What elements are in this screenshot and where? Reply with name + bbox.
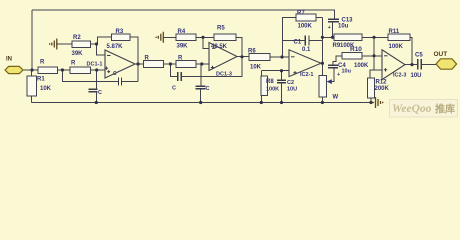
svg-text:R8: R8: [266, 79, 274, 85]
wire R4 to R5 node: [196, 36, 214, 38]
svg-text:10u: 10u: [342, 69, 351, 75]
svg-text:R2: R2: [73, 35, 81, 41]
resistor R12: [368, 78, 375, 98]
wire C1 row: [282, 39, 322, 41]
wire loop3 left vertical: [282, 18, 296, 58]
op-amp4 plus pin mark: [384, 68, 387, 71]
op-amp1 minus pin mark: [107, 55, 111, 57]
svg-text:DC1-1: DC1-1: [87, 62, 103, 68]
wire output stage4 to C5: [405, 64, 417, 66]
wire R4 to ground: [164, 36, 176, 38]
resistor R2: [72, 41, 91, 48]
node rail pot: [321, 101, 324, 104]
svg-text:R7: R7: [297, 11, 305, 17]
resistor R8: [261, 76, 267, 96]
wire stage2 to op-amp plus: [196, 63, 209, 65]
wire loop3 right vertical: [321, 18, 323, 76]
capacitor C2 (plates): [277, 80, 286, 83]
svg-text:推库: 推库: [435, 103, 455, 116]
svg-text:WeeQoo: WeeQoo: [392, 103, 432, 115]
capacitor C13 (plates): [328, 19, 339, 22]
node stage3 plus: [280, 69, 283, 72]
capacitor C5 (plates): [418, 59, 422, 69]
svg-text:+: +: [328, 25, 331, 31]
wire minus input stage1: [97, 44, 106, 55]
wire R1 stems: [31, 70, 33, 103]
wire pot bottom stem: [321, 97, 323, 103]
wire plus input stage3: [261, 70, 289, 72]
node minus4 top: [372, 36, 375, 39]
wire to op-amp plus input stage1: [91, 69, 106, 71]
svg-text:R11: R11: [389, 29, 400, 35]
node minus4: [372, 54, 375, 57]
wire R3 left: [97, 37, 111, 44]
connector OUT: [436, 59, 457, 69]
svg-text:R5: R5: [217, 26, 225, 32]
op-amp2 minus pin mark: [212, 47, 216, 49]
resistor R9: [334, 34, 362, 41]
resistor R stage2 b: [176, 61, 196, 68]
node stage2 mid: [169, 62, 172, 65]
svg-text:48.5K: 48.5K: [211, 44, 228, 50]
resistor R4: [176, 34, 196, 41]
wire C5 to OUT: [422, 64, 436, 66]
node stage1 output: [136, 62, 139, 65]
wire R2 to node: [91, 43, 97, 45]
wire minus input stage2: [203, 37, 209, 48]
svg-text:C2: C2: [287, 80, 294, 86]
svg-text:R: R: [40, 60, 45, 66]
wire R2 to ground: [58, 43, 73, 45]
wire R10 right: [362, 55, 374, 57]
node rail R8: [260, 101, 263, 104]
svg-text:R4: R4: [178, 29, 186, 35]
wire R6 to minus node stage3: [270, 56, 289, 58]
resistor R1: [27, 76, 36, 96]
wire ground-cap stage2: [200, 64, 202, 103]
node rail cap1: [95, 101, 98, 104]
resistor R10: [342, 53, 362, 60]
node stage1 plus: [95, 68, 98, 71]
wire plus input stage4 to R12: [370, 70, 382, 78]
capacitor C stage2 ground (plates): [196, 86, 206, 89]
svg-text:R: R: [145, 56, 150, 62]
resistor R stage2 a: [144, 61, 164, 68]
svg-text:100K: 100K: [354, 63, 369, 69]
watermark box: [390, 100, 458, 118]
svg-text:10K: 10K: [40, 86, 52, 92]
op-amp IC2-3: [382, 50, 405, 80]
svg-text:R6: R6: [248, 49, 256, 55]
ground near R4: [156, 32, 164, 43]
node IN junction: [30, 68, 33, 71]
svg-text:C: C: [172, 86, 176, 92]
resistor R11: [388, 34, 410, 41]
potentiometer W wiper arrowhead: [327, 79, 332, 84]
svg-text:39K: 39K: [177, 44, 189, 50]
svg-text:R10: R10: [350, 46, 362, 53]
node stage3 minus: [280, 55, 283, 58]
svg-text:C: C: [113, 71, 117, 77]
svg-text:IC2-1: IC2-1: [300, 72, 313, 78]
svg-text:R12: R12: [376, 80, 388, 86]
svg-text:100K: 100K: [389, 44, 404, 50]
wire left rail: [31, 10, 33, 70]
wire R12 bottom stem: [370, 98, 372, 103]
node R4-R5: [201, 36, 204, 39]
capacitor C stage1 ground (plates): [89, 89, 98, 92]
svg-text:10K: 10K: [250, 65, 262, 71]
resistor R3: [112, 34, 131, 41]
wire between input resistors: [58, 69, 71, 71]
svg-text:DC1-3: DC1-3: [216, 72, 232, 78]
svg-text:0.1: 0.1: [302, 47, 311, 53]
wire output stage2 to R6: [237, 56, 249, 59]
op-amp3 minus pin mark: [291, 56, 295, 58]
op-amp2 plus pin mark: [211, 66, 214, 69]
svg-text:100K: 100K: [298, 24, 313, 30]
capacitor C stage2 feedback (plates): [178, 72, 181, 81]
svg-text:C5: C5: [415, 53, 423, 59]
potentiometer W body: [319, 75, 326, 97]
wire R11 right down to output4: [410, 37, 412, 64]
capacitor C stage1 feedback (plates): [119, 77, 122, 85]
svg-text:C1: C1: [294, 40, 302, 46]
svg-text:W: W: [333, 95, 339, 101]
wire pot top stem: [321, 71, 323, 76]
svg-text:10U: 10U: [287, 87, 297, 93]
node op3 apex: [321, 62, 324, 65]
node stage1 mid: [61, 68, 64, 71]
node C13-row37: [331, 36, 334, 39]
wire R7 right: [316, 17, 322, 19]
svg-text:C: C: [98, 90, 102, 96]
svg-text:R: R: [178, 56, 183, 62]
wire R10 left with C4 branch: [331, 56, 342, 82]
wire C13 stem down: [332, 22, 334, 37]
node rail C2: [280, 101, 283, 104]
wire R8 stem: [260, 71, 262, 103]
ground bottom right: [371, 97, 383, 108]
wire row37 minus4: [322, 36, 388, 38]
node loop3-row37: [321, 36, 324, 39]
resistor R5: [214, 34, 236, 41]
node R2-R3: [95, 42, 98, 45]
wire output stage1: [135, 63, 144, 65]
svg-text:100K: 100K: [266, 87, 279, 93]
op-amp DC1-3: [209, 43, 237, 71]
svg-text:R: R: [71, 61, 76, 67]
svg-text:39K: 39K: [72, 51, 84, 57]
op-amp DC1-1: [105, 50, 135, 78]
capacitor C4 (plates): [328, 65, 338, 68]
op-amp3 plus pin mark: [293, 71, 296, 74]
wire ground-cap stage1: [95, 70, 97, 103]
op-amp4 minus pin mark: [384, 55, 388, 57]
wire R5 right: [236, 36, 242, 38]
op-amp1 plus pin mark: [105, 67, 111, 74]
capacitor C1 (plates): [305, 35, 309, 45]
svg-text:OUT: OUT: [434, 51, 448, 58]
wire R3 right down to output node: [130, 37, 138, 82]
wire bottom rail: [32, 102, 372, 104]
svg-text:R3: R3: [116, 29, 124, 35]
resistor R (input 1): [38, 67, 58, 74]
svg-text:C: C: [206, 86, 210, 92]
svg-text:5.87K: 5.87K: [107, 44, 124, 50]
resistor R (input 2): [70, 67, 91, 74]
wire top rail: [32, 10, 335, 19]
svg-text:IC2-3: IC2-3: [393, 73, 406, 79]
resistor R7: [296, 14, 316, 21]
wire C2 stem: [281, 71, 283, 103]
node rail cap2: [199, 101, 202, 104]
svg-text:C13: C13: [342, 17, 354, 23]
svg-text:+: +: [337, 72, 340, 78]
svg-text:10U: 10U: [411, 73, 422, 79]
svg-text:R1: R1: [37, 77, 45, 83]
resistor R6: [249, 54, 270, 61]
node stage4 output: [410, 63, 413, 66]
op-amp IC2-1: [289, 50, 321, 77]
node rail R12-ground: [369, 101, 372, 104]
wire IN to first node: [23, 69, 38, 71]
node stage2 plus: [200, 62, 203, 65]
svg-text:200K: 200K: [375, 86, 390, 92]
wire feedback stage2: [170, 37, 242, 76]
svg-text:IN: IN: [6, 57, 12, 63]
connector IN: [5, 66, 23, 73]
node stage2 output: [240, 55, 243, 58]
wire minus node down to op-amp4: [374, 37, 382, 70]
svg-text:10u: 10u: [338, 24, 349, 30]
ground near R2: [50, 39, 58, 50]
wire feedback stage1: [62, 70, 138, 82]
wire between stage2 resistors: [164, 63, 177, 65]
